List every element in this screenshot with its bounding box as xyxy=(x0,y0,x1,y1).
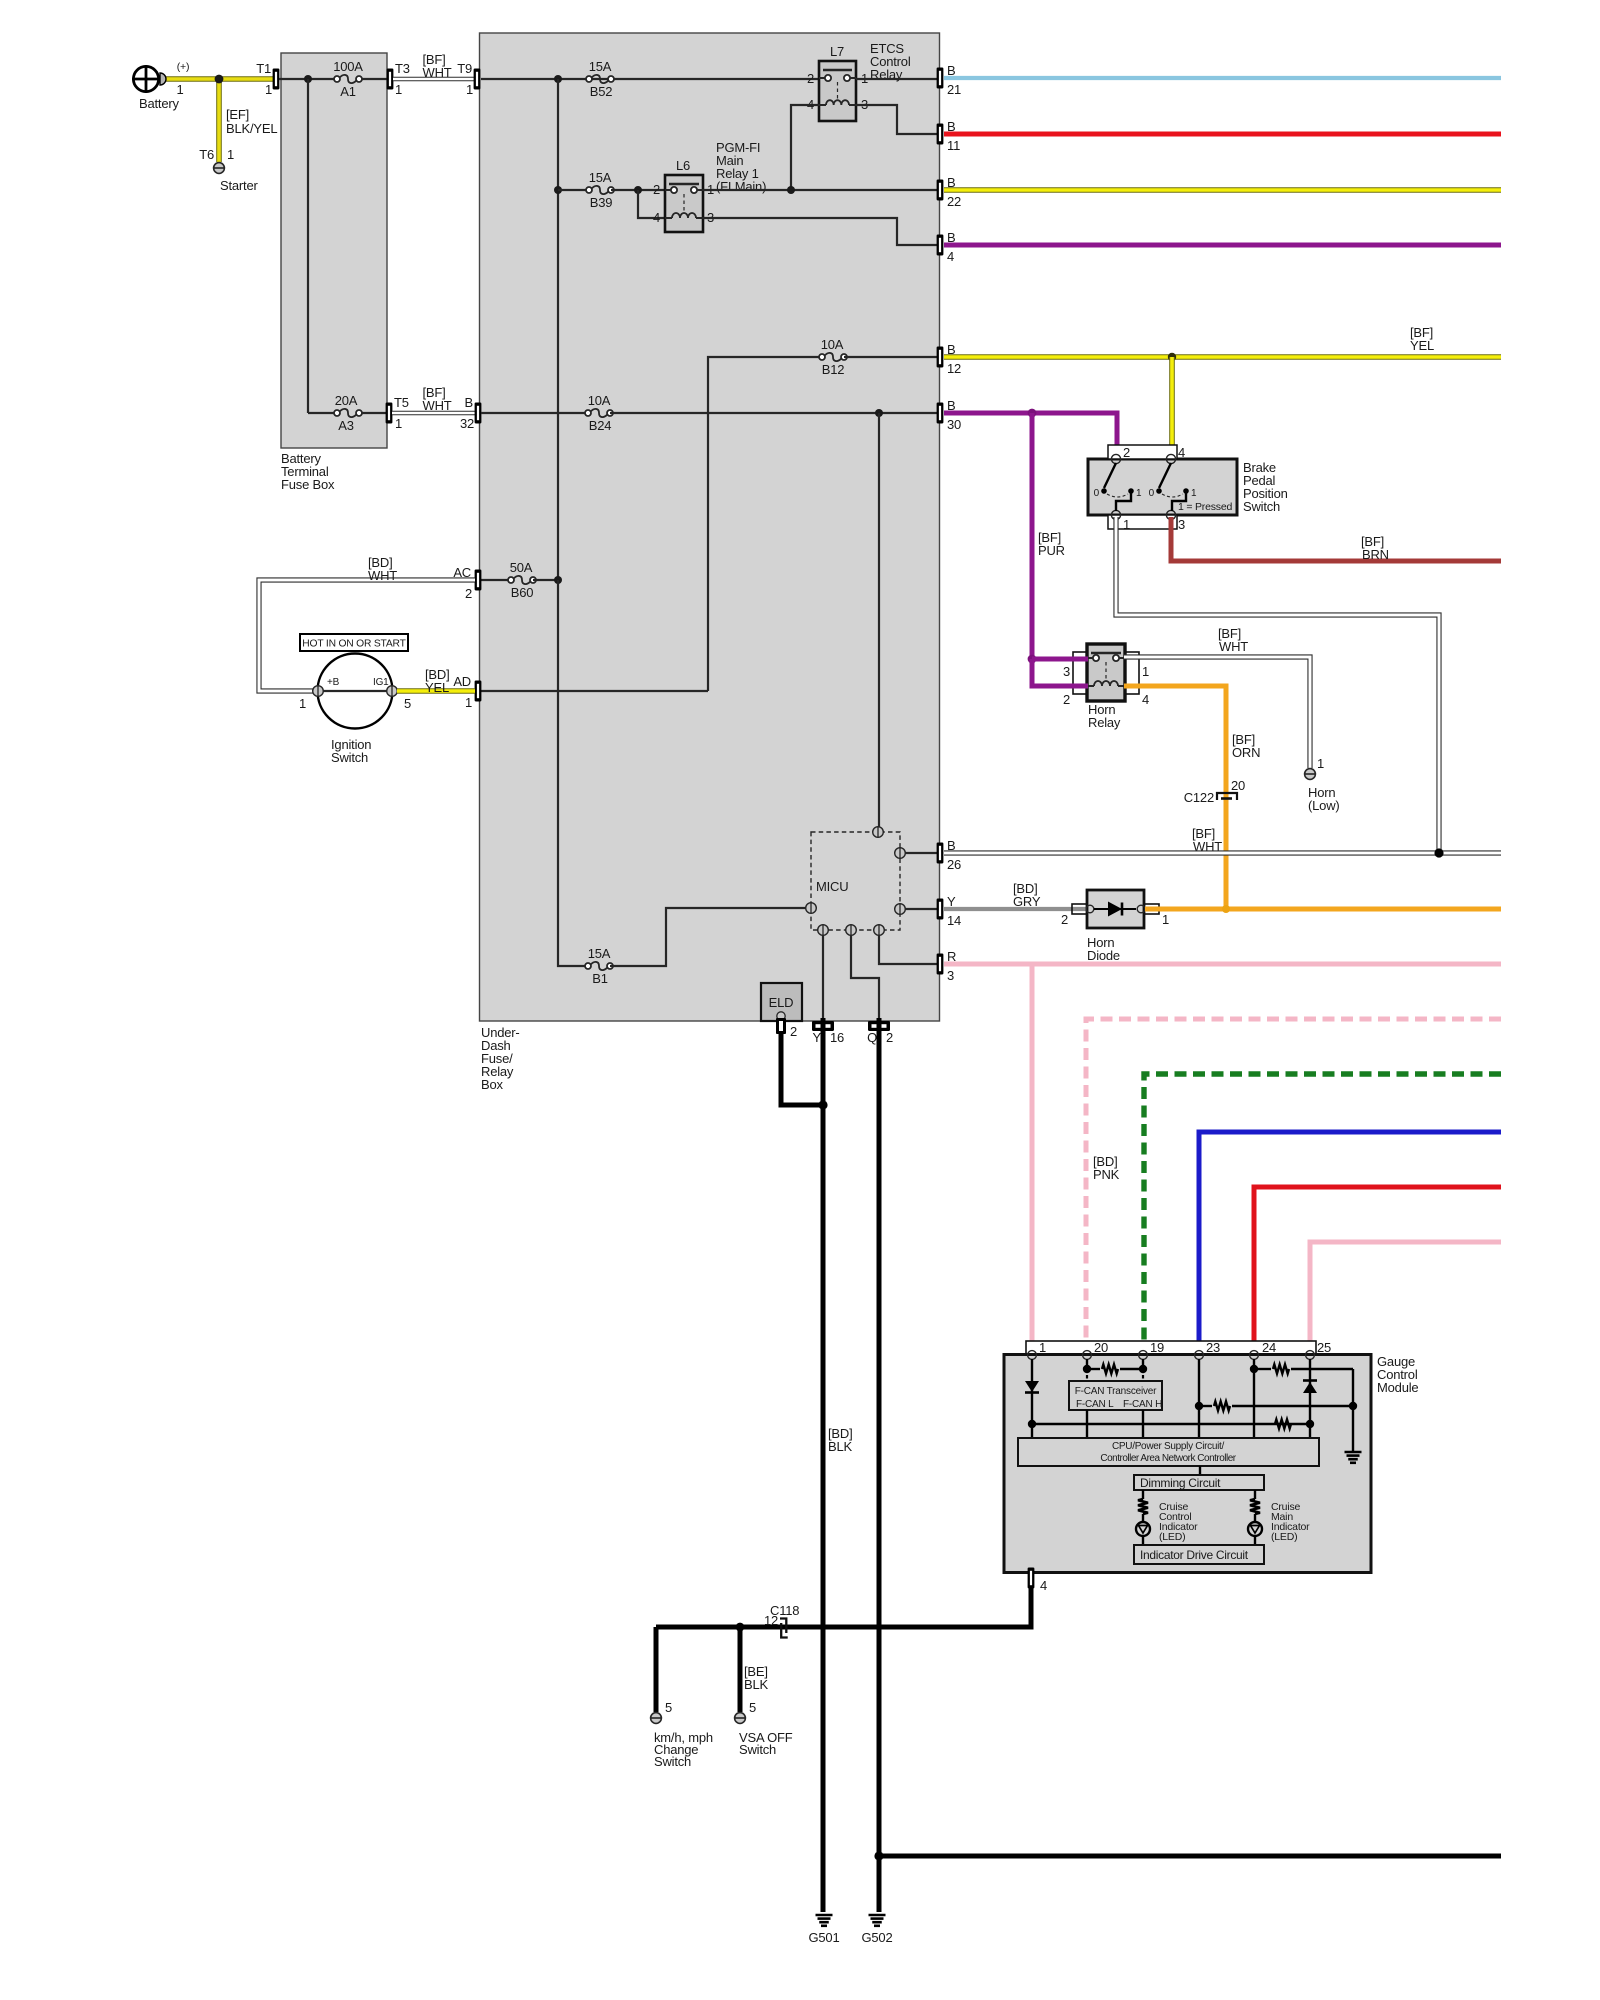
wire horn diode to orange ORN xyxy=(1145,907,1501,912)
horn diode symbol xyxy=(1094,908,1136,910)
wire AD to B12 fuse xyxy=(708,357,819,691)
svg-text:1: 1 xyxy=(1123,517,1130,532)
wire [BD] PNK dashed to gauge pin20 xyxy=(1086,1019,1501,1351)
junction pin20 xyxy=(1083,1365,1091,1373)
connector Q2 xyxy=(868,1021,890,1031)
wire AD connector to riser xyxy=(481,690,708,692)
wire pink drop to gauge pin1 xyxy=(1030,964,1035,1351)
MICU bottom pin 2 xyxy=(846,925,857,936)
svg-text:Indicator Drive Circuit: Indicator Drive Circuit xyxy=(1140,1548,1249,1562)
svg-text:2: 2 xyxy=(1123,445,1130,460)
svg-text:YEL: YEL xyxy=(425,680,449,695)
starter branch wire [EF] BLK/YEL xyxy=(216,79,222,162)
wire AC to ignition +B [BD] WHT xyxy=(259,580,475,691)
svg-text:(+): (+) xyxy=(177,61,190,73)
svg-text:B24: B24 xyxy=(589,418,612,433)
connector Y16 xyxy=(812,1021,834,1031)
svg-text:15A: 15A xyxy=(589,59,612,74)
wire B32 to fuse B24 xyxy=(481,412,588,414)
diode at pin25 xyxy=(1303,1379,1317,1382)
svg-text:Relay: Relay xyxy=(1088,715,1121,730)
svg-text:L6: L6 xyxy=(676,158,690,173)
svg-text:10A: 10A xyxy=(588,393,611,408)
wire R3 PNK xyxy=(944,962,1501,967)
ignition +B pin xyxy=(313,686,324,697)
svg-text:A1: A1 xyxy=(340,84,356,99)
svg-text:5: 5 xyxy=(749,1700,756,1715)
MICU pin (Y14) xyxy=(895,904,906,915)
svg-text:21: 21 xyxy=(947,82,961,97)
svg-text:5: 5 xyxy=(665,1700,672,1715)
horn diode left stub xyxy=(1072,904,1087,914)
junction bus/B39 xyxy=(554,186,562,194)
wire L7 pin1 to B21 xyxy=(856,78,938,80)
svg-text:25: 25 xyxy=(1317,1340,1331,1355)
svg-text:Q: Q xyxy=(867,1030,877,1045)
svg-text:Dimming Circuit: Dimming Circuit xyxy=(1140,1476,1221,1490)
connector R3 xyxy=(937,954,944,975)
svg-text:B52: B52 xyxy=(590,84,613,99)
fuse 10A B24 xyxy=(585,410,591,416)
ground leg vertical xyxy=(1352,1369,1354,1451)
junction at L6 feed xyxy=(634,186,642,194)
VSA OFF switch terminal xyxy=(735,1713,746,1724)
svg-text:1: 1 xyxy=(1142,664,1149,679)
wire pin25 to CPU xyxy=(1309,1424,1311,1438)
fuse 15A B52 xyxy=(586,76,592,82)
svg-text:T9: T9 xyxy=(457,61,472,76)
svg-text:15A: 15A xyxy=(588,946,611,961)
horn low terminal xyxy=(1305,769,1316,780)
horn diode body xyxy=(1087,890,1144,928)
wire pin19 down xyxy=(1142,1359,1144,1369)
battery positive terminal symbol xyxy=(133,66,158,91)
horn relay left stub xyxy=(1073,652,1087,694)
svg-text:4: 4 xyxy=(1178,445,1185,460)
svg-text:3: 3 xyxy=(947,968,954,983)
connector B30 xyxy=(937,403,944,424)
svg-text:4: 4 xyxy=(1142,692,1149,707)
connector B21 xyxy=(937,68,944,89)
wire MICU to Y16 xyxy=(822,935,824,1020)
svg-text:1: 1 xyxy=(395,416,402,431)
junction pin1 bus xyxy=(1028,1420,1036,1428)
svg-text:Fuse Box: Fuse Box xyxy=(281,477,335,492)
HOT IN ON OR START box xyxy=(300,634,408,651)
brake dashed travel arc left xyxy=(1107,494,1128,497)
F-CAN transceiver box xyxy=(1069,1381,1162,1410)
dimming circuit box xyxy=(1134,1475,1264,1490)
svg-text:BLK: BLK xyxy=(744,1677,769,1692)
svg-text:1: 1 xyxy=(227,147,234,162)
vertical bus in fuse box xyxy=(307,79,309,413)
ignition IG1 pin xyxy=(387,686,398,697)
svg-text:22: 22 xyxy=(947,194,961,209)
svg-text:23: 23 xyxy=(1206,1340,1220,1355)
MICU bottom pin 1 xyxy=(818,925,829,936)
wire T1 to fuse A1 xyxy=(279,78,334,80)
svg-text:B1: B1 xyxy=(592,971,608,986)
svg-text:20A: 20A xyxy=(335,393,358,408)
svg-text:L7: L7 xyxy=(830,44,844,59)
junction on B12 wire xyxy=(1168,353,1176,361)
svg-text:20: 20 xyxy=(1231,778,1245,793)
junction ELD/Y16 xyxy=(818,1100,827,1109)
wire L7 pin3 to B11 xyxy=(856,105,938,134)
junction bus/B60 xyxy=(554,576,562,584)
svg-text:100A: 100A xyxy=(333,59,363,74)
connector AC xyxy=(475,570,482,591)
inline connector C118 pin 12 xyxy=(780,1619,786,1634)
wires F-CAN to CPU xyxy=(1086,1410,1088,1438)
wire Y16 to G501 xyxy=(821,1018,826,1912)
svg-text:(Low): (Low) xyxy=(1308,798,1340,813)
connector Y14 xyxy=(937,899,944,920)
svg-text:GRY: GRY xyxy=(1013,894,1041,909)
wire bus to fuse B39 xyxy=(558,189,589,191)
svg-text:15A: 15A xyxy=(589,170,612,185)
resistor pin24 to ground leg xyxy=(1258,1368,1271,1370)
svg-text:Controller Area Network Contro: Controller Area Network Controller xyxy=(1100,1453,1236,1464)
svg-text:Box: Box xyxy=(481,1077,504,1092)
junction MICU feed xyxy=(875,409,883,417)
wire pin25 down xyxy=(1309,1359,1311,1424)
internal bus to pin25 xyxy=(1032,1423,1310,1425)
junction bus pin25 xyxy=(1306,1420,1314,1428)
MICU left pin (B1) xyxy=(806,903,817,914)
wire BLU to gauge pin23 xyxy=(1199,1132,1501,1351)
svg-text:B39: B39 xyxy=(590,195,613,210)
wire B26 [BF] WHT xyxy=(944,850,1501,855)
brake pin 2 ring xyxy=(1111,454,1120,463)
svg-text:20: 20 xyxy=(1094,1340,1108,1355)
wire B22 YEL xyxy=(944,187,1501,193)
svg-text:Module: Module xyxy=(1377,1380,1418,1395)
wire horn relay pin1 [BF] WHT xyxy=(1124,657,1310,768)
wire pin1 to CPU xyxy=(1031,1424,1033,1438)
horn relay right stub xyxy=(1125,652,1139,694)
brake contact dots right xyxy=(1156,488,1162,494)
svg-text:BLK: BLK xyxy=(828,1439,853,1454)
fuse 15A B1 xyxy=(585,963,591,969)
svg-text:F-CAN L: F-CAN L xyxy=(1076,1399,1114,1410)
svg-text:1: 1 xyxy=(465,695,472,710)
ignition wiper line xyxy=(318,690,392,692)
wire fuse A3 to T5 xyxy=(362,412,386,414)
wire T5 to B32 [BF] WHT xyxy=(392,411,475,416)
svg-text:1: 1 xyxy=(176,82,183,97)
svg-text:BLK/YEL: BLK/YEL xyxy=(226,121,277,136)
svg-text:B12: B12 xyxy=(822,362,845,377)
brake output elbow left xyxy=(1116,493,1131,511)
main bus lower segment xyxy=(558,580,588,966)
indicator drive circuit box xyxy=(1134,1545,1264,1564)
svg-text:T1: T1 xyxy=(256,61,271,76)
svg-text:1: 1 xyxy=(1191,488,1197,499)
svg-text:ORN: ORN xyxy=(1232,745,1260,760)
svg-text:4: 4 xyxy=(947,249,954,264)
svg-text:(LED): (LED) xyxy=(1159,1531,1185,1543)
MICU pin (B26) xyxy=(895,848,906,859)
svg-text:2: 2 xyxy=(1063,692,1070,707)
connector T5 xyxy=(386,403,393,424)
PGM-FI main relay L6 xyxy=(665,175,703,232)
svg-text:WHT: WHT xyxy=(368,568,397,583)
svg-text:Switch: Switch xyxy=(1243,499,1280,514)
svg-text:IG1: IG1 xyxy=(373,677,389,688)
svg-text:0: 0 xyxy=(1094,488,1100,499)
svg-text:1: 1 xyxy=(1136,488,1142,499)
wire GRN dashed to gauge pin19 xyxy=(1144,1074,1501,1351)
connector B22 xyxy=(937,180,944,201)
svg-text:F-CAN H: F-CAN H xyxy=(1123,1399,1162,1410)
svg-text:B60: B60 xyxy=(511,585,534,600)
MICU bottom pin 3 xyxy=(874,925,885,936)
wire IG1 to AD [BD] YEL xyxy=(397,688,475,694)
wire fuse B12 to B12 connector xyxy=(844,356,938,358)
wire purple to horn relay pin3 xyxy=(1032,657,1088,662)
svg-text:(LED): (LED) xyxy=(1271,1531,1297,1543)
wire to VSA switch [BE] BLK xyxy=(738,1627,743,1712)
wire junction down to MICU xyxy=(878,413,880,832)
svg-text:YEL: YEL xyxy=(1410,338,1434,353)
svg-text:T6: T6 xyxy=(199,147,214,162)
junction at main bus top xyxy=(554,75,562,83)
fuse 100A A1 xyxy=(337,78,359,80)
horn relay body xyxy=(1087,644,1125,701)
wire fuse B39 to relay L6 xyxy=(611,189,665,191)
svg-text:T3: T3 xyxy=(395,61,410,76)
ELD box xyxy=(761,983,802,1021)
svg-text:11: 11 xyxy=(947,138,960,153)
wire fuse B60 to bus xyxy=(533,579,558,581)
svg-text:A3: A3 xyxy=(338,418,354,433)
wire T3 to T9 [BF] WHT xyxy=(393,77,475,82)
connector B26 xyxy=(937,843,944,864)
svg-text:G501: G501 xyxy=(808,1930,839,1945)
wire Q2 to G502 xyxy=(877,1018,882,1912)
svg-text:Diode: Diode xyxy=(1087,948,1120,963)
under-dash fuse/relay box xyxy=(480,33,940,1021)
wire B30 PUR xyxy=(944,413,1117,455)
ignition switch circle xyxy=(318,654,393,729)
wire gauge pin1 down xyxy=(1031,1359,1033,1424)
brake pin 4 ring xyxy=(1166,454,1175,463)
km/h change switch terminal xyxy=(651,1713,662,1724)
wire horn relay pin4 [BF] ORN xyxy=(1124,686,1226,909)
connector AD xyxy=(475,681,482,702)
svg-text:F-CAN Transceiver: F-CAN Transceiver xyxy=(1075,1386,1157,1397)
svg-text:1: 1 xyxy=(1162,912,1169,927)
svg-text:+B: +B xyxy=(327,677,340,688)
ELD connector xyxy=(776,1018,786,1034)
wire to brake switch pin4 YEL xyxy=(1169,357,1175,455)
junction pin23 xyxy=(1195,1402,1203,1410)
fuse 50A B60 xyxy=(508,577,514,583)
brake output elbow right xyxy=(1172,493,1186,511)
wire B4 PUR xyxy=(944,243,1501,248)
gauge pin 4 connector xyxy=(1028,1568,1035,1589)
svg-text:Y: Y xyxy=(813,1030,822,1045)
brake switch bottom connector outline xyxy=(1108,515,1177,529)
svg-text:12: 12 xyxy=(764,1613,778,1628)
junction G502 branch xyxy=(874,1851,883,1860)
svg-text:19: 19 xyxy=(1150,1340,1164,1355)
svg-text:B: B xyxy=(947,63,955,78)
connector T3 xyxy=(387,69,394,90)
horn diode right stub xyxy=(1144,904,1159,914)
wire fuse B24 to B30 connector xyxy=(610,412,938,414)
ground G501 xyxy=(816,1914,833,1917)
wire pin23 down xyxy=(1198,1359,1200,1438)
inline connector C122 pin 20 xyxy=(1217,793,1237,800)
svg-text:[EF]: [EF] xyxy=(226,107,249,122)
gauge module connector strip xyxy=(1026,1341,1316,1355)
wire ELD to ground bus xyxy=(781,1031,820,1105)
MICU right pin to Y14 xyxy=(905,908,938,910)
svg-text:3: 3 xyxy=(1063,664,1070,679)
svg-text:5: 5 xyxy=(404,696,411,711)
wire T9 to ETCS relay xyxy=(481,78,819,80)
fuse 20A A3 xyxy=(334,410,340,416)
junction on battery wire xyxy=(215,75,224,84)
CPU box xyxy=(1018,1438,1319,1466)
connector B11 xyxy=(937,124,944,145)
junction in fuse box xyxy=(304,75,312,83)
ETCS control relay L7 xyxy=(819,61,856,121)
wire L6 pin3 to B4 xyxy=(703,218,938,245)
brake pin 3 ring xyxy=(1166,510,1175,519)
ELD pin xyxy=(777,1012,785,1020)
svg-text:ELD: ELD xyxy=(769,995,794,1010)
ground G502 xyxy=(869,1914,886,1917)
svg-text:WHT: WHT xyxy=(423,65,452,80)
svg-text:1: 1 xyxy=(1039,1340,1046,1355)
wire dimming to cruise LEDs xyxy=(1199,1474,1201,1476)
svg-text:PUR: PUR xyxy=(1038,543,1065,558)
starter terminal xyxy=(214,163,225,174)
orange junction xyxy=(1222,905,1230,913)
svg-text:10A: 10A xyxy=(821,337,844,352)
junction ground leg xyxy=(1349,1402,1357,1410)
svg-text:Switch: Switch xyxy=(654,1754,691,1769)
svg-text:HOT IN ON OR START: HOT IN ON OR START xyxy=(302,639,406,650)
svg-text:24: 24 xyxy=(1262,1340,1276,1355)
cruise main LED chain xyxy=(1254,1490,1256,1499)
wire purple drop to horn relay [BF] PUR xyxy=(1030,413,1035,659)
gauge internal ground xyxy=(1345,1451,1362,1454)
wire L7 pin4 to FI-main node xyxy=(791,105,819,190)
junction pin19 xyxy=(1139,1365,1147,1373)
svg-text:2: 2 xyxy=(1061,912,1068,927)
junction L7-coil/B22 wire xyxy=(787,186,795,194)
svg-text:4: 4 xyxy=(653,210,660,225)
gauge pin rings xyxy=(1028,1351,1037,1360)
svg-text:Battery: Battery xyxy=(139,96,179,111)
svg-text:T5: T5 xyxy=(394,395,409,410)
wire purple to horn relay pin2 xyxy=(1032,659,1088,686)
svg-text:12: 12 xyxy=(947,361,961,376)
wire CPU to dimming xyxy=(1199,1466,1201,1475)
junction on B30 wire xyxy=(1028,409,1037,418)
wire MICU to Q2 xyxy=(851,935,879,1020)
svg-text:1: 1 xyxy=(299,696,306,711)
resistor pin23 to ground leg xyxy=(1203,1405,1212,1407)
svg-text:WHT: WHT xyxy=(423,398,452,413)
bus resistor xyxy=(1275,1420,1291,1429)
svg-text:PNK: PNK xyxy=(1093,1167,1120,1182)
svg-text:2: 2 xyxy=(886,1030,893,1045)
branch to L6 pin4 xyxy=(638,190,665,218)
wire MICU pin3 to R3 xyxy=(879,935,938,964)
battery B+ wire [EF] BLK/YEL xyxy=(157,76,274,82)
wire brake pin1 [BF] WHT xyxy=(1116,517,1439,853)
brake switch arm right xyxy=(1159,463,1171,488)
resistor pins 20-19 xyxy=(1091,1368,1100,1370)
wire fuse B1 to MICU xyxy=(610,908,806,966)
junction purple at horn relay xyxy=(1028,655,1037,664)
dashed stubs into F-CAN xyxy=(1086,1369,1088,1381)
MICU top pin xyxy=(873,827,884,838)
brake switch top connector outline xyxy=(1108,445,1177,459)
wire B11 RED xyxy=(944,132,1501,137)
brake dashed travel arc right xyxy=(1162,494,1183,497)
svg-text:(FI Main): (FI Main) xyxy=(716,179,766,194)
junction pin24 xyxy=(1250,1365,1258,1373)
brake switch arm left xyxy=(1104,463,1116,488)
main vertical bus x=558 xyxy=(557,79,559,580)
connector B4 xyxy=(937,235,944,256)
wire Y14 [BD] GRY xyxy=(944,907,1086,911)
brake pin 1 ring xyxy=(1111,510,1120,519)
connector T9 xyxy=(474,69,481,90)
MICU dashed outline xyxy=(811,832,900,930)
svg-text:1: 1 xyxy=(1317,756,1324,771)
svg-text:MICU: MICU xyxy=(816,879,848,894)
connector T1 xyxy=(273,69,280,90)
svg-text:14: 14 xyxy=(947,913,961,928)
fuse 10A B12 xyxy=(819,354,825,360)
wire bus to fuse A3 xyxy=(308,412,334,414)
wire G502 branch right xyxy=(879,1854,1501,1859)
svg-text:2: 2 xyxy=(465,586,472,601)
svg-text:3: 3 xyxy=(1178,517,1185,532)
wire brake pin3 [BF] BRN xyxy=(1171,517,1501,561)
cruise control LED chain xyxy=(1142,1490,1144,1499)
MICU right pin to B26 xyxy=(905,852,938,854)
fuse 15A B39 xyxy=(586,187,592,193)
svg-text:Starter: Starter xyxy=(220,178,258,193)
svg-text:1: 1 xyxy=(395,82,402,97)
svg-text:50A: 50A xyxy=(510,560,533,575)
svg-text:2: 2 xyxy=(790,1024,797,1039)
svg-text:AD: AD xyxy=(453,674,471,689)
svg-text:1: 1 xyxy=(466,82,473,97)
svg-text:WHT: WHT xyxy=(1219,639,1248,654)
horn diode pin rings xyxy=(1086,905,1094,913)
svg-text:4: 4 xyxy=(1040,1578,1047,1593)
svg-text:C122: C122 xyxy=(1184,790,1214,805)
svg-text:Switch: Switch xyxy=(739,1742,776,1757)
svg-text:CPU/Power Supply Circuit/: CPU/Power Supply Circuit/ xyxy=(1112,1441,1225,1452)
wire gauge pin4 to switches [BD] BLK xyxy=(656,1586,1031,1627)
wire AC to fuse B60 xyxy=(481,579,511,581)
wire PNK to gauge pin25 xyxy=(1310,1242,1501,1351)
wire fuse A1 to T3 xyxy=(362,78,388,80)
wire RED to gauge pin24 xyxy=(1254,1187,1501,1351)
diode at pin1 xyxy=(1025,1381,1039,1392)
svg-text:16: 16 xyxy=(830,1030,844,1045)
